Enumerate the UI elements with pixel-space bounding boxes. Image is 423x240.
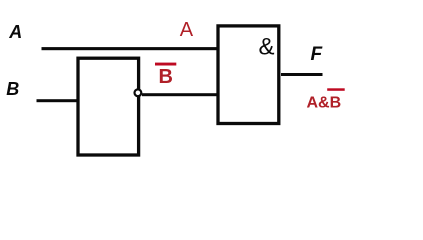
input label B bbox=[6, 79, 19, 99]
NOT gate U1 (inverter box) bbox=[78, 58, 139, 155]
svg-text:A: A bbox=[8, 22, 22, 42]
wire A (input A to AND gate) bbox=[42, 47, 220, 50]
AND gate U2 (ampersand box) bbox=[218, 26, 279, 124]
AND gate symbol label & bbox=[259, 34, 275, 61]
svg-text:B: B bbox=[6, 79, 19, 99]
svg-text:A: A bbox=[180, 19, 194, 41]
input label A bbox=[8, 22, 22, 42]
svg-text:F: F bbox=[311, 44, 324, 65]
net label B-bar overline (red) bbox=[155, 63, 176, 66]
net label A (red) bbox=[180, 19, 194, 41]
svg-text:&: & bbox=[259, 34, 275, 61]
net label A&amp;B (red) bbox=[307, 94, 342, 111]
net label B (red) bbox=[159, 66, 173, 88]
output label F bbox=[311, 44, 324, 65]
net label A&amp;B-bar overline (red) bbox=[327, 88, 345, 91]
wire NOT-B (bubble to AND gate) bbox=[142, 93, 220, 96]
wire B (input B to NOT gate) bbox=[37, 99, 79, 102]
inversion bubble on NOT gate output bbox=[135, 89, 142, 96]
svg-text:B: B bbox=[159, 66, 173, 88]
svg-text:A&B: A&B bbox=[307, 94, 342, 111]
wire F (AND gate output) bbox=[281, 73, 323, 76]
